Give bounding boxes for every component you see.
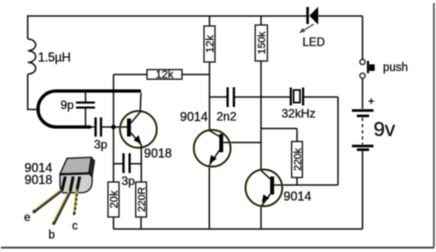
svg-text:3p: 3p <box>94 138 108 152</box>
svg-text:32kHz: 32kHz <box>282 107 316 121</box>
svg-text:b: b <box>49 230 55 242</box>
svg-text:220R: 220R <box>136 187 148 213</box>
svg-text:12k: 12k <box>156 69 174 81</box>
svg-text:9v: 9v <box>374 118 396 141</box>
svg-text:9014: 9014 <box>180 110 208 124</box>
svg-text:9p: 9p <box>61 98 75 112</box>
svg-text:220k: 220k <box>292 147 304 171</box>
svg-text:9018: 9018 <box>144 147 172 161</box>
svg-text:20k: 20k <box>109 190 121 208</box>
svg-text:e: e <box>24 212 30 224</box>
svg-text:9014: 9014 <box>284 190 312 204</box>
svg-text:LED: LED <box>303 37 325 49</box>
svg-text:150k: 150k <box>256 31 268 55</box>
svg-text:push: push <box>383 62 408 74</box>
svg-text:9018: 9018 <box>25 173 53 187</box>
svg-text:12k: 12k <box>205 35 217 53</box>
svg-text:c: c <box>72 221 78 233</box>
svg-text:1.5µH: 1.5µH <box>38 51 71 65</box>
svg-text:2n2: 2n2 <box>217 110 237 124</box>
svg-text:3p: 3p <box>122 174 136 188</box>
